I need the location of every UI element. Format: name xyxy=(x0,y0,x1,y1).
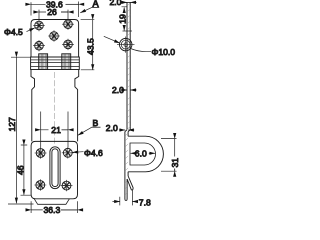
pin circle Phi10 (side view) xyxy=(117,37,135,53)
svg-text:B: B xyxy=(93,118,99,128)
svg-text:Φ10.0: Φ10.0 xyxy=(152,47,176,57)
hole H7 plate top-right xyxy=(62,147,74,158)
label Phi10.0 with leader xyxy=(131,49,151,52)
leader arrow pointing at pin from upper-left xyxy=(104,36,120,43)
dim 36.3 xyxy=(31,201,77,213)
foot tab (side view) xyxy=(127,176,133,190)
strip hatching lower xyxy=(125,133,128,195)
top plate outline xyxy=(31,20,79,58)
label Phi4.5 with leader xyxy=(27,28,35,32)
dim 31 xyxy=(161,139,177,172)
svg-text:21: 21 xyxy=(51,125,61,135)
side strip jog xyxy=(125,130,130,132)
hole H9 plate bottom-right xyxy=(61,180,73,191)
svg-text:7.8: 7.8 xyxy=(139,198,151,208)
hole H6 plate top-left xyxy=(35,147,47,158)
slot inner outline xyxy=(52,149,58,187)
roller outer D xyxy=(128,136,163,172)
strip hatching upper xyxy=(127,3,130,130)
hinge band xyxy=(31,57,80,70)
svg-text:2.0: 2.0 xyxy=(106,123,118,133)
dim 43.5 xyxy=(81,20,95,70)
dim 26 xyxy=(39,10,68,20)
svg-text:46: 46 xyxy=(15,165,25,175)
svg-text:26: 26 xyxy=(47,7,57,17)
svg-text:Φ4.6: Φ4.6 xyxy=(84,148,103,158)
roller inner D xyxy=(130,143,156,165)
svg-text:2.0: 2.0 xyxy=(110,0,122,7)
dim 127 xyxy=(8,57,34,204)
hole H3 center (front view) xyxy=(48,30,60,41)
hole H1 top-left (front view) xyxy=(33,20,45,31)
dim 19 xyxy=(122,7,133,31)
hole H2 top-right (front view) xyxy=(62,19,74,30)
side view strip upper section xyxy=(127,2,130,129)
svg-text:31: 31 xyxy=(170,158,180,168)
dim 46 xyxy=(21,145,32,195)
dim 7.8 xyxy=(112,190,137,206)
dim 39.6 xyxy=(31,2,79,18)
svg-text:127: 127 xyxy=(7,117,17,132)
svg-text:19: 19 xyxy=(118,14,128,24)
strap left edge with waist xyxy=(31,70,35,142)
svg-text:43.5: 43.5 xyxy=(85,38,95,55)
svg-text:6.0: 6.0 xyxy=(135,148,147,158)
strap centerline xyxy=(53,72,55,145)
label Phi4.6 with leader xyxy=(73,151,84,154)
foot tab under plate (front view) xyxy=(34,199,69,205)
hinge knuckle tab left (hatched) xyxy=(39,54,48,70)
hole H5 bottom-right (front view) xyxy=(62,39,74,50)
strap right edge with waist xyxy=(75,70,79,142)
side view strip lower section xyxy=(125,132,128,201)
hole H4 bottom-left (front view) xyxy=(33,40,45,51)
dim 21 xyxy=(41,112,68,148)
side view strip top tick xyxy=(126,1,132,3)
svg-text:36.3: 36.3 xyxy=(44,205,61,215)
hinge knuckle tab right (hatched) xyxy=(62,54,71,70)
svg-text:Φ4.5: Φ4.5 xyxy=(4,27,23,37)
slot outer outline xyxy=(50,147,60,189)
hole H8 plate bottom-left xyxy=(34,179,46,190)
bottom plate outline xyxy=(31,141,77,198)
